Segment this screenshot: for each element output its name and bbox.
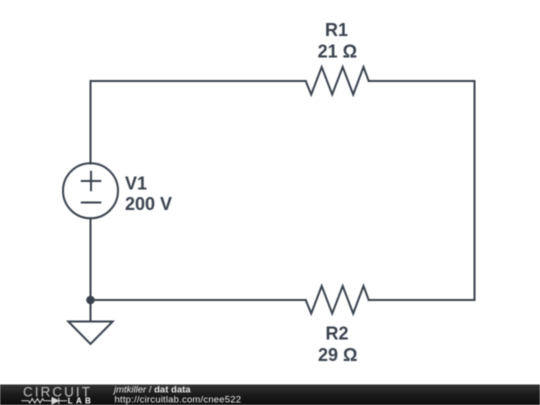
svg-text:http://circuitlab.com/cnee522: http://circuitlab.com/cnee522 [115, 395, 242, 405]
footer bar [0, 385, 540, 405]
svg-text:R1: R1 [325, 20, 348, 40]
node junction dot [86, 296, 95, 305]
wire V1 bottom lead [90, 218, 92, 300]
resistor R1 [306, 67, 369, 95]
wire right segment [474, 81, 476, 300]
svg-text:29 Ω: 29 Ω [318, 345, 357, 365]
wire top-right segment [369, 80, 475, 82]
wire bottom-left segment [91, 299, 306, 301]
svg-text:200 V: 200 V [125, 194, 172, 214]
svg-text:LAB: LAB [68, 397, 94, 405]
V1 plus sign [82, 172, 101, 191]
resistor R2 [306, 286, 369, 314]
CircuitLab logo resistor-diode symbol [22, 398, 68, 404]
svg-text:R2: R2 [325, 324, 348, 344]
ground lead wire [90, 300, 92, 322]
V1 minus sign [82, 202, 101, 204]
voltage source V1 [63, 163, 118, 218]
svg-text:21 Ω: 21 Ω [318, 42, 357, 62]
wire top-left segment [91, 81, 306, 164]
wire bottom-right segment [369, 299, 475, 301]
svg-text:V1: V1 [125, 174, 147, 194]
ground symbol [68, 322, 112, 345]
